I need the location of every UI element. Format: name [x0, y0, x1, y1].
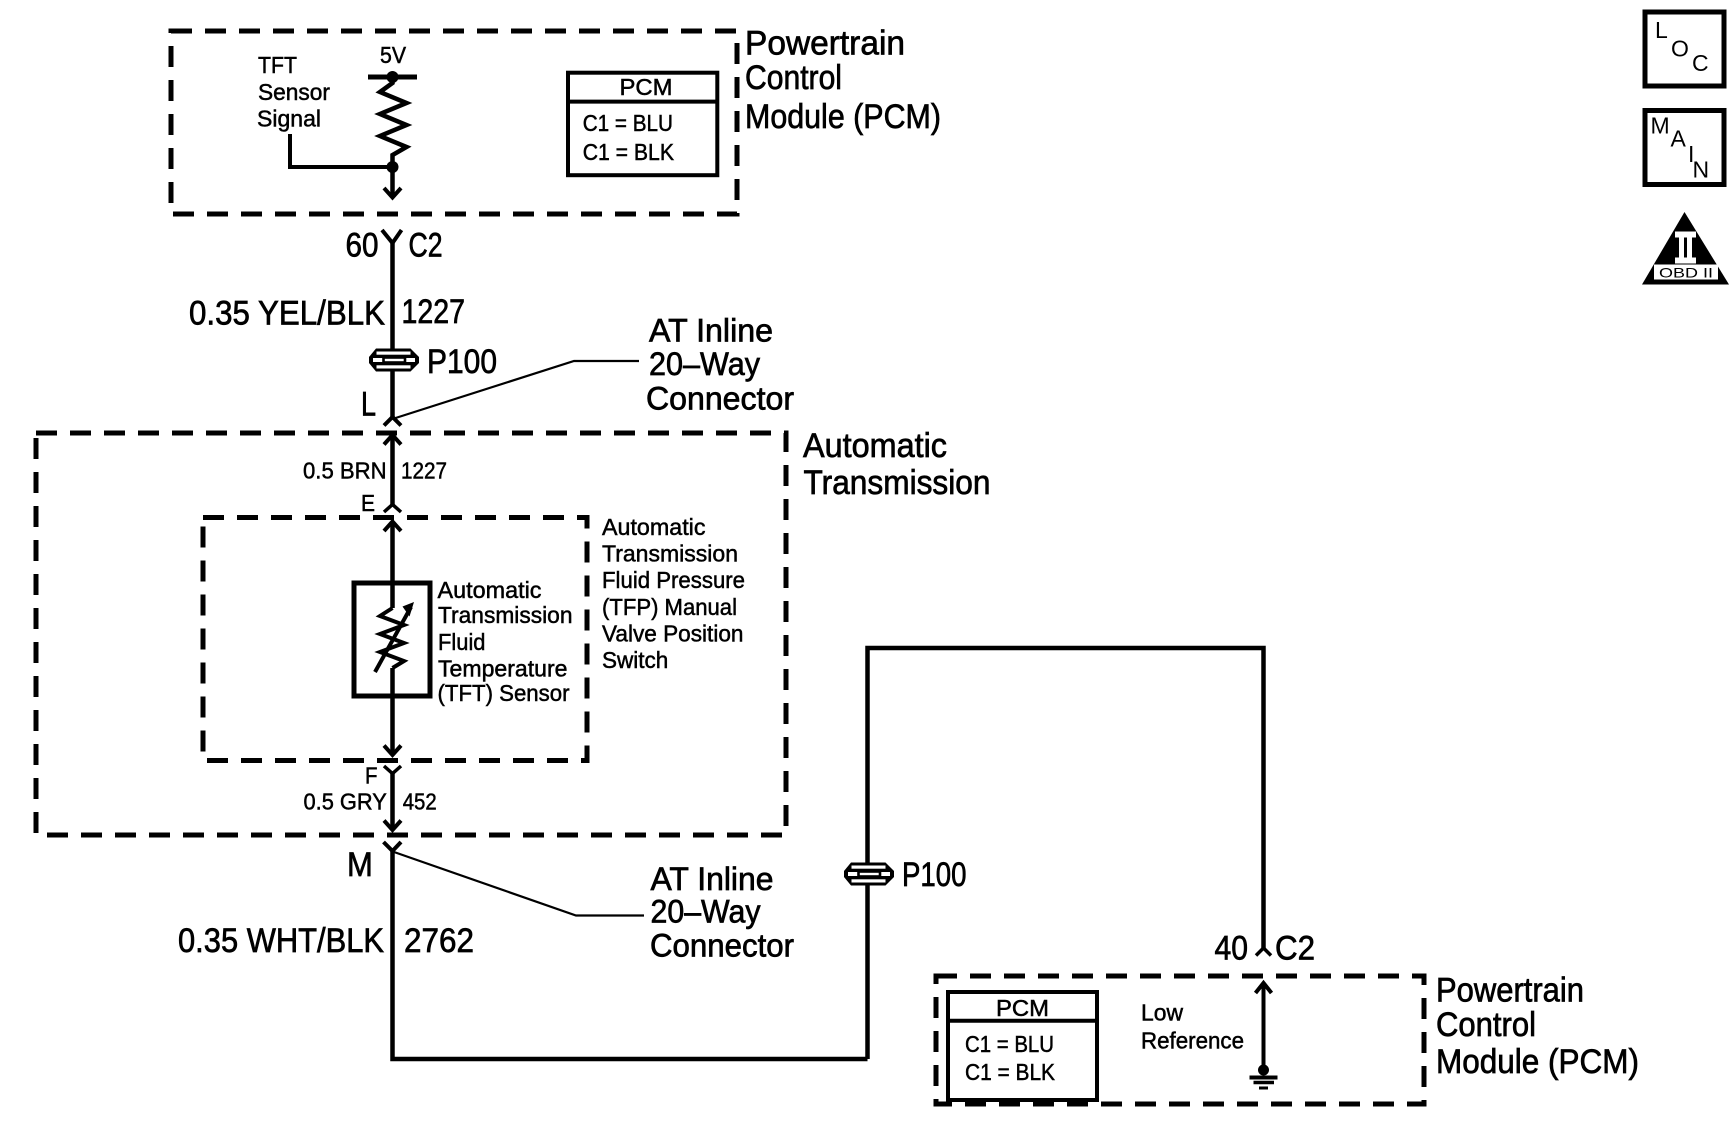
leader line to AT Inline note (bottom)	[394, 852, 644, 916]
leader line to AT Inline note (top)	[394, 361, 639, 419]
svg-text:20–Way: 20–Way	[649, 346, 760, 382]
locator icon MAIN	[1645, 111, 1724, 185]
svg-text:Transmission: Transmission	[438, 602, 573, 628]
arrow leaving AT box (down)	[384, 821, 401, 831]
svg-text:Automatic: Automatic	[602, 514, 706, 540]
svg-text:Signal: Signal	[257, 106, 321, 132]
svg-text:Module (PCM): Module (PCM)	[1436, 1043, 1639, 1081]
svg-text:Connector: Connector	[650, 928, 794, 964]
svg-text:Temperature: Temperature	[438, 656, 568, 682]
arrow entering AT box at L	[384, 435, 401, 445]
wire from TFT Sensor Signal label	[290, 134, 390, 167]
svg-text:Automatic: Automatic	[438, 577, 542, 603]
inline connector P100 (right)	[844, 863, 894, 886]
svg-text:TFT: TFT	[258, 52, 297, 78]
svg-text:M: M	[347, 846, 373, 884]
svg-text:Fluid: Fluid	[438, 629, 486, 655]
svg-text:Low: Low	[1141, 1000, 1184, 1026]
svg-text:Transmission: Transmission	[804, 464, 991, 502]
thermistor wire out	[390, 668, 395, 696]
svg-text:0.35 YEL/BLK: 0.35 YEL/BLK	[189, 295, 385, 333]
pin 40 C2 marker	[1256, 948, 1271, 956]
ground junction dot	[1258, 1065, 1269, 1076]
svg-text:Powertrain: Powertrain	[1436, 972, 1584, 1010]
PCM connector table (bottom)	[948, 992, 1097, 1100]
wire up right side, across top, down to pin 40	[868, 648, 1264, 1059]
svg-text:20–Way: 20–Way	[651, 894, 761, 930]
pin 60 C2 connector marker	[382, 230, 402, 243]
svg-text:Switch: Switch	[602, 647, 668, 673]
svg-text:Module (PCM): Module (PCM)	[745, 98, 941, 136]
svg-text:(TFT) Sensor: (TFT) Sensor	[438, 680, 570, 706]
svg-text:F: F	[365, 763, 378, 789]
svg-text:1227: 1227	[401, 458, 447, 484]
svg-text:M: M	[1651, 113, 1670, 139]
svg-text:PCM: PCM	[996, 995, 1049, 1021]
svg-text:60: 60	[346, 226, 379, 264]
svg-text:Powertrain: Powertrain	[745, 25, 905, 63]
svg-text:C1 = BLK: C1 = BLK	[583, 139, 675, 165]
svg-text:L: L	[361, 385, 376, 423]
svg-text:1227: 1227	[402, 293, 466, 331]
arrow down to pin 60 inside PCM	[390, 167, 395, 195]
wire 60 to P100	[390, 243, 395, 350]
TFP switch dashed box	[203, 518, 587, 761]
svg-text:Control: Control	[745, 59, 842, 97]
svg-text:2762: 2762	[404, 922, 474, 960]
svg-text:AT Inline: AT Inline	[651, 861, 774, 897]
svg-text:452: 452	[403, 789, 437, 815]
svg-text:OBD II: OBD II	[1659, 265, 1713, 281]
svg-text:C2: C2	[1275, 930, 1315, 968]
svg-text:Fluid Pressure: Fluid Pressure	[602, 567, 745, 593]
svg-text:40: 40	[1215, 930, 1249, 968]
PCM connector table (top)	[568, 73, 717, 176]
5V rail	[368, 75, 417, 80]
wire M down and across	[393, 851, 868, 1059]
svg-text:(TFP) Manual: (TFP) Manual	[602, 594, 737, 620]
svg-text:Reference: Reference	[1141, 1028, 1244, 1054]
svg-text:P100: P100	[902, 856, 967, 894]
svg-text:Sensor: Sensor	[258, 79, 330, 105]
thermistor zigzag	[380, 608, 404, 668]
Automatic Transmission dashed box	[36, 433, 786, 835]
inline connector P100 (top)	[369, 349, 419, 372]
svg-text:A: A	[1671, 126, 1687, 152]
svg-text:Automatic: Automatic	[803, 427, 947, 465]
svg-text:Control: Control	[1436, 1006, 1536, 1044]
svg-text:Connector: Connector	[646, 381, 794, 417]
svg-text:O: O	[1671, 36, 1689, 62]
thermistor arrow	[375, 607, 411, 672]
OBD II triangle icon	[1642, 212, 1729, 285]
svg-text:0.35 WHT/BLK: 0.35 WHT/BLK	[178, 922, 384, 960]
pin M marker	[384, 842, 402, 851]
svg-text:5V: 5V	[380, 42, 406, 68]
svg-text:C1 = BLU: C1 = BLU	[965, 1031, 1054, 1057]
junction dot 5V	[387, 71, 399, 83]
svg-text:C1 = BLK: C1 = BLK	[965, 1059, 1055, 1085]
svg-text:C2: C2	[409, 226, 443, 264]
svg-text:Transmission: Transmission	[602, 541, 738, 567]
junction dot node	[387, 161, 399, 173]
svg-text:L: L	[1655, 17, 1668, 43]
arrow entering bottom PCM (up)	[1256, 983, 1272, 993]
svg-text:N: N	[1693, 157, 1710, 183]
svg-text:PCM: PCM	[620, 74, 673, 100]
PCM module dashed box (bottom)	[936, 976, 1424, 1104]
svg-text:E: E	[361, 490, 375, 516]
pin L marker	[384, 417, 401, 426]
thermistor wire in	[390, 583, 395, 608]
wire P100 to pin L	[390, 371, 395, 417]
locator icon LOC	[1645, 12, 1724, 86]
svg-text:0.5 GRY: 0.5 GRY	[304, 789, 388, 815]
arrow entering TFP switch	[384, 522, 401, 532]
svg-text:AT Inline: AT Inline	[649, 313, 773, 349]
arrow leaving TFP switch (down)	[390, 696, 395, 753]
svg-text:P100: P100	[427, 343, 497, 381]
svg-text:Valve Position: Valve Position	[602, 620, 744, 646]
pin E marker	[384, 505, 401, 513]
svg-text:0.5 BRN: 0.5 BRN	[303, 458, 387, 484]
TFT sensor box	[354, 583, 430, 696]
svg-text:C: C	[1692, 50, 1709, 76]
PCM module dashed box (top)	[171, 31, 737, 214]
resistor R pull-up	[380, 79, 407, 167]
pin F marker	[384, 766, 401, 774]
wire F down	[390, 774, 395, 829]
ground symbol	[1250, 1076, 1278, 1080]
svg-text:C1 = BLU: C1 = BLU	[583, 110, 673, 136]
